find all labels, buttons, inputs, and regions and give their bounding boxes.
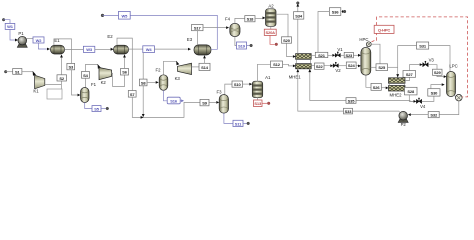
wire [338,65,346,67]
svg-text:K3: K3 [175,76,181,81]
wire [287,43,293,56]
compressor K2 [99,68,112,86]
wire E1 loop [54,39,72,64]
svg-text:S35: S35 [348,98,356,103]
work stream W5 wire [103,15,218,49]
arrowhead [414,100,417,103]
svg-text:S11: S11 [235,121,242,126]
arrowhead [47,48,50,51]
wire MHE1 pass1 out [311,54,332,56]
arrowhead [249,83,252,86]
stream S5 [92,106,101,112]
arrowhead into P2 [408,113,411,116]
arrowhead [330,64,333,67]
arrowhead [293,65,296,68]
node W1 source dot [2,18,5,21]
adsorber A2 [266,3,277,26]
wire F2 top to K3 [164,61,177,75]
wire S4 down to F1 [84,78,86,87]
svg-text:W3: W3 [86,47,93,52]
heat stream S20A [264,29,276,35]
svg-text:S23: S23 [345,53,353,58]
stream S35 [346,98,356,104]
wire [60,81,62,89]
wire A1 bottom to S13 [257,98,259,100]
svg-text:S27: S27 [406,72,414,77]
wire [147,81,156,83]
stream S36 [329,8,340,16]
stream S6 [121,69,129,76]
stream S22 [315,63,325,69]
wire E2 loop [117,38,132,90]
svg-text:S25: S25 [378,65,386,70]
wire [203,27,226,29]
wire [95,48,111,50]
wire F4 bottom to S19 [235,37,237,46]
stream S4 [82,72,90,79]
work stream W3 [83,46,94,52]
wire reboiler to S32 [439,101,459,115]
wire V4 to S30 [422,96,434,101]
svg-text:F4: F4 [225,17,231,22]
work stream W1 [5,23,15,29]
svg-text:S28: S28 [407,89,415,94]
svg-text:P1: P1 [18,31,24,36]
arrowhead blue [181,99,184,102]
svg-text:W2: W2 [36,38,43,43]
stream S7 [128,91,136,98]
stream S9 [200,99,209,105]
stream S24 [346,62,356,69]
wire condenser to S25 [371,44,380,64]
heat exchanger E1 [51,38,65,54]
arrowhead [293,55,296,58]
heat stream Q-HPC [374,25,394,33]
stream S17 [192,25,204,31]
arrowhead into F3 [216,101,219,104]
svg-text:S30: S30 [431,91,439,96]
stream S32 [428,112,439,118]
wire P2 to S33 [353,111,400,112]
arrowhead [78,94,81,97]
wire F3 bottom to S11 [224,113,233,123]
wire [243,122,247,124]
heat stream S13 [254,100,263,107]
wire MHE1 to S35 [310,69,414,102]
compressor K1 [33,75,44,93]
work stream W2 [33,37,44,43]
column HPC [359,37,370,75]
arrowhead [98,64,101,69]
node S19 dot [250,44,253,47]
stream S25 [376,64,388,71]
wire HPC bottom to S26 [366,75,371,87]
wire E2 to W4 [129,48,143,50]
svg-text:W1: W1 [7,24,14,29]
wire [356,65,358,67]
arrowhead [420,63,423,66]
svg-text:S32: S32 [430,113,438,118]
node S11 dot [247,122,250,125]
svg-text:HPC: HPC [359,37,368,42]
arrowhead [60,54,63,57]
arrowhead [342,10,345,13]
stream S34 [294,12,304,19]
flash drum F4 [225,17,240,37]
stream S23 [344,52,353,58]
wire [243,83,250,85]
pump P1 [17,31,27,47]
svg-text:V2: V2 [335,68,341,73]
svg-text:F1: F1 [91,82,97,87]
wire K3 to S14 [192,66,200,68]
flash drum F3 [216,90,228,113]
arrowhead up into MHE1 pass2 [308,69,311,72]
stream S1 [13,69,22,75]
wire F4 top to S18 [235,18,245,23]
svg-text:S22: S22 [316,64,324,69]
arrowhead [176,61,179,66]
svg-text:S21: S21 [318,53,326,58]
wire [72,70,78,95]
wire [154,48,188,50]
wire F1 bottom [85,103,92,109]
arrowhead up into MHE1 [296,69,299,72]
stream S19 [237,42,247,49]
node S13 dot [267,102,270,105]
heat stream Q-HPC wire red dashed [372,17,468,97]
svg-text:E3: E3 [187,37,193,42]
wire F3 top to S10 [225,84,232,95]
svg-text:F3: F3 [216,90,222,95]
svg-text:S17: S17 [194,26,202,31]
work stream W5 [119,11,131,19]
arrowhead [263,17,266,20]
pump P2 [398,111,408,127]
svg-text:MHE2: MHE2 [390,93,403,98]
multistream exchanger MHE2 [389,78,406,98]
stream S18 [245,16,255,22]
wire [6,71,13,73]
stream S20 [282,37,292,43]
wire [180,100,181,102]
expander K3 [175,63,192,81]
wire [10,29,15,40]
stream S26 [371,83,381,90]
arrowhead [156,81,159,84]
valve V1 [335,47,343,57]
svg-text:S31: S31 [419,44,427,49]
wire [388,66,398,68]
stream S33 [344,108,353,114]
wire [381,87,385,89]
node S36 dot [343,10,346,13]
stream S16 [167,97,180,104]
svg-text:W5: W5 [121,13,128,18]
svg-text:K2: K2 [101,80,107,85]
stream S28 [405,87,418,95]
wire MHE1 pass2 out [311,65,330,67]
wire S28 to V4 [409,95,413,102]
flash drum F2 [155,67,167,90]
svg-text:S29: S29 [434,70,442,75]
wire [38,43,46,49]
arrowhead junction [141,116,144,119]
svg-text:S13: S13 [254,101,262,106]
arrowhead [386,87,389,90]
wire [247,45,250,47]
svg-text:S20A: S20A [265,30,275,35]
heat exchanger E3 [187,37,211,55]
wire HPC right to S25 [371,66,376,68]
wire K2 outlet to S6 [112,73,125,86]
stream S27 [403,71,416,78]
wire F2 bottom to S16 [164,90,167,101]
svg-text:S26: S26 [373,85,381,90]
wire [255,17,262,19]
wire [101,108,106,110]
wire loop S31 [398,46,450,74]
arrowhead [358,65,361,68]
wire A1 top to S12 [258,64,271,81]
arrowhead [123,54,126,57]
wire MHE2 pass1 to S27 [405,65,420,81]
wire S4 up to K2 [85,65,98,72]
wire A2 bottom [270,26,272,29]
wire S30 to LPC [431,85,442,89]
svg-text:E2: E2 [107,34,113,39]
wire MHE1 to S34 [297,7,299,54]
arrowhead [226,26,229,29]
stream S31 [417,42,429,49]
svg-text:W4: W4 [146,47,153,52]
wire [22,71,33,73]
svg-text:K1: K1 [33,88,39,93]
wire [124,57,126,68]
block B1 [47,89,62,99]
wire V3 to S29 [428,65,437,70]
stream S21 [315,52,328,58]
stream S11 [233,120,243,126]
stream S10 [232,81,243,87]
svg-text:S16: S16 [170,99,178,104]
svg-text:S36: S36 [332,10,340,15]
wire [283,64,293,66]
wire [61,57,63,74]
condenser HPC [366,42,371,48]
adsorber A1 [252,75,271,98]
svg-text:MHE1: MHE1 [289,74,302,79]
arrowhead [444,75,447,78]
svg-text:S10: S10 [234,82,242,87]
svg-text:S20: S20 [283,38,291,43]
node S20A dot [275,43,278,46]
arrowhead [33,71,36,76]
svg-text:E1: E1 [54,38,60,43]
stream S3 [67,63,75,69]
work stream W4 [143,46,155,53]
valve V2 [333,62,341,73]
wire [298,72,344,111]
stream S12 [271,61,283,68]
arrowhead [203,55,206,58]
stream S30 [428,89,440,96]
svg-text:S34: S34 [295,14,303,19]
wire [411,114,428,116]
wire red [270,35,275,44]
wire [27,38,33,40]
svg-text:LPC: LPC [449,64,457,69]
wire A2 right to S20 [276,14,288,37]
heat exchanger E2 [107,34,128,54]
svg-text:S33: S33 [345,109,353,114]
arrowhead down into MHE2 [396,74,399,78]
svg-text:S24: S24 [348,63,356,68]
valve V4 [416,98,426,109]
svg-text:A2: A2 [268,3,274,8]
wire K1 outlet [45,83,62,85]
multistream exchanger MHE1 [289,54,311,80]
svg-text:S19: S19 [238,44,246,49]
node W5 source dot [101,14,104,17]
svg-text:S14: S14 [201,65,209,70]
arrowhead [188,48,191,51]
arrowhead [442,83,445,86]
arrowhead [15,39,18,42]
svg-text:F2: F2 [155,67,161,72]
wire S36 [318,12,342,56]
node S34 dot [297,2,300,5]
wire [340,54,344,56]
wire red [262,102,267,104]
wire [132,97,216,117]
arrowhead down junction [142,114,145,117]
svg-text:P2: P2 [401,122,407,127]
svg-text:V4: V4 [420,104,426,109]
arrowhead [296,4,299,7]
wire E3 loop to S17 [197,31,199,45]
wire [4,20,10,24]
svg-text:V3: V3 [429,58,435,63]
arrowhead [111,48,114,51]
wire [353,54,358,56]
svg-text:Q-HPC: Q-HPC [378,28,390,33]
flash drum F1 [81,82,97,102]
arrowhead [358,54,361,57]
node S1 source dot [4,70,7,73]
wire W4 down through S8 [142,53,144,115]
svg-text:S12: S12 [273,62,281,67]
node S5 dot [106,107,109,110]
wire [437,75,444,76]
stream S8 [139,79,147,86]
svg-text:V1: V1 [337,47,343,52]
column LPC [447,64,458,97]
valve V3 [423,58,435,67]
stream S2 [57,75,67,81]
arrowhead [332,54,335,57]
reboiler LPC [454,94,463,101]
wire E1 to W3 [65,48,84,50]
stream S29 [433,69,443,75]
stream S14 [199,63,210,70]
svg-text:S18: S18 [247,17,255,22]
svg-text:A1: A1 [265,75,271,80]
wire [204,58,206,63]
